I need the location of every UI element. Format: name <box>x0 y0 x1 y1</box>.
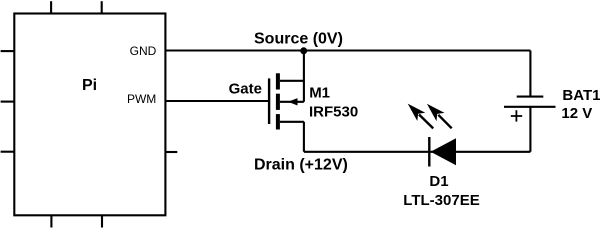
pin stub right unused <box>165 151 177 153</box>
pin tick bottom 1 <box>50 215 52 227</box>
svg-text:M1: M1 <box>309 84 330 101</box>
transistor M1 drain lead <box>280 122 304 152</box>
LED light arrow 1 head <box>408 104 426 121</box>
LED light arrow 1 line <box>419 115 433 129</box>
pin tick left 1 <box>1 50 15 52</box>
pin tick left 3 <box>1 151 15 153</box>
transistor M1 gate bar <box>268 78 270 124</box>
diode D1 triangle <box>431 138 456 165</box>
svg-text:Pi: Pi <box>82 77 97 94</box>
battery BAT1 short plate (negative) <box>517 96 544 98</box>
svg-text:IRF530: IRF530 <box>309 103 358 120</box>
transistor M1 source lead <box>280 51 304 102</box>
svg-text:Drain (+12V): Drain (+12V) <box>254 156 348 173</box>
svg-text:PWM: PWM <box>127 92 156 106</box>
svg-text:Source (0V): Source (0V) <box>254 31 343 48</box>
LED light arrow 2 line <box>438 115 451 129</box>
battery plus sign <box>511 110 522 121</box>
svg-text:12 V: 12 V <box>561 105 592 122</box>
transistor M1 body arrow head <box>288 98 298 105</box>
svg-text:BAT1: BAT1 <box>562 87 600 104</box>
pin tick bottom 2 <box>101 215 103 227</box>
wire drain to LED to battery (Drain +12V net) <box>304 151 531 153</box>
svg-text:Gate: Gate <box>229 80 262 97</box>
Pi box U1 <box>14 14 165 216</box>
wire PWM to gate <box>165 100 268 102</box>
wire GND to battery (Source 0V net) <box>165 49 530 51</box>
battery BAT1 long plate (positive) <box>504 106 556 108</box>
node junction dot <box>300 47 307 54</box>
svg-text:D1: D1 <box>429 173 448 190</box>
pin tick top 1 <box>50 1 52 13</box>
svg-text:GND: GND <box>130 44 157 58</box>
svg-text:LTL-307EE: LTL-307EE <box>403 192 479 209</box>
battery BAT1 lead top <box>529 51 531 97</box>
pin tick left 2 <box>1 101 15 103</box>
pin tick top 2 <box>101 1 103 13</box>
diode D1 cathode bar <box>428 137 430 167</box>
LED light arrow 2 head <box>427 104 445 121</box>
transistor M1 channel segments <box>276 73 280 129</box>
battery BAT1 lead bottom <box>529 107 531 152</box>
